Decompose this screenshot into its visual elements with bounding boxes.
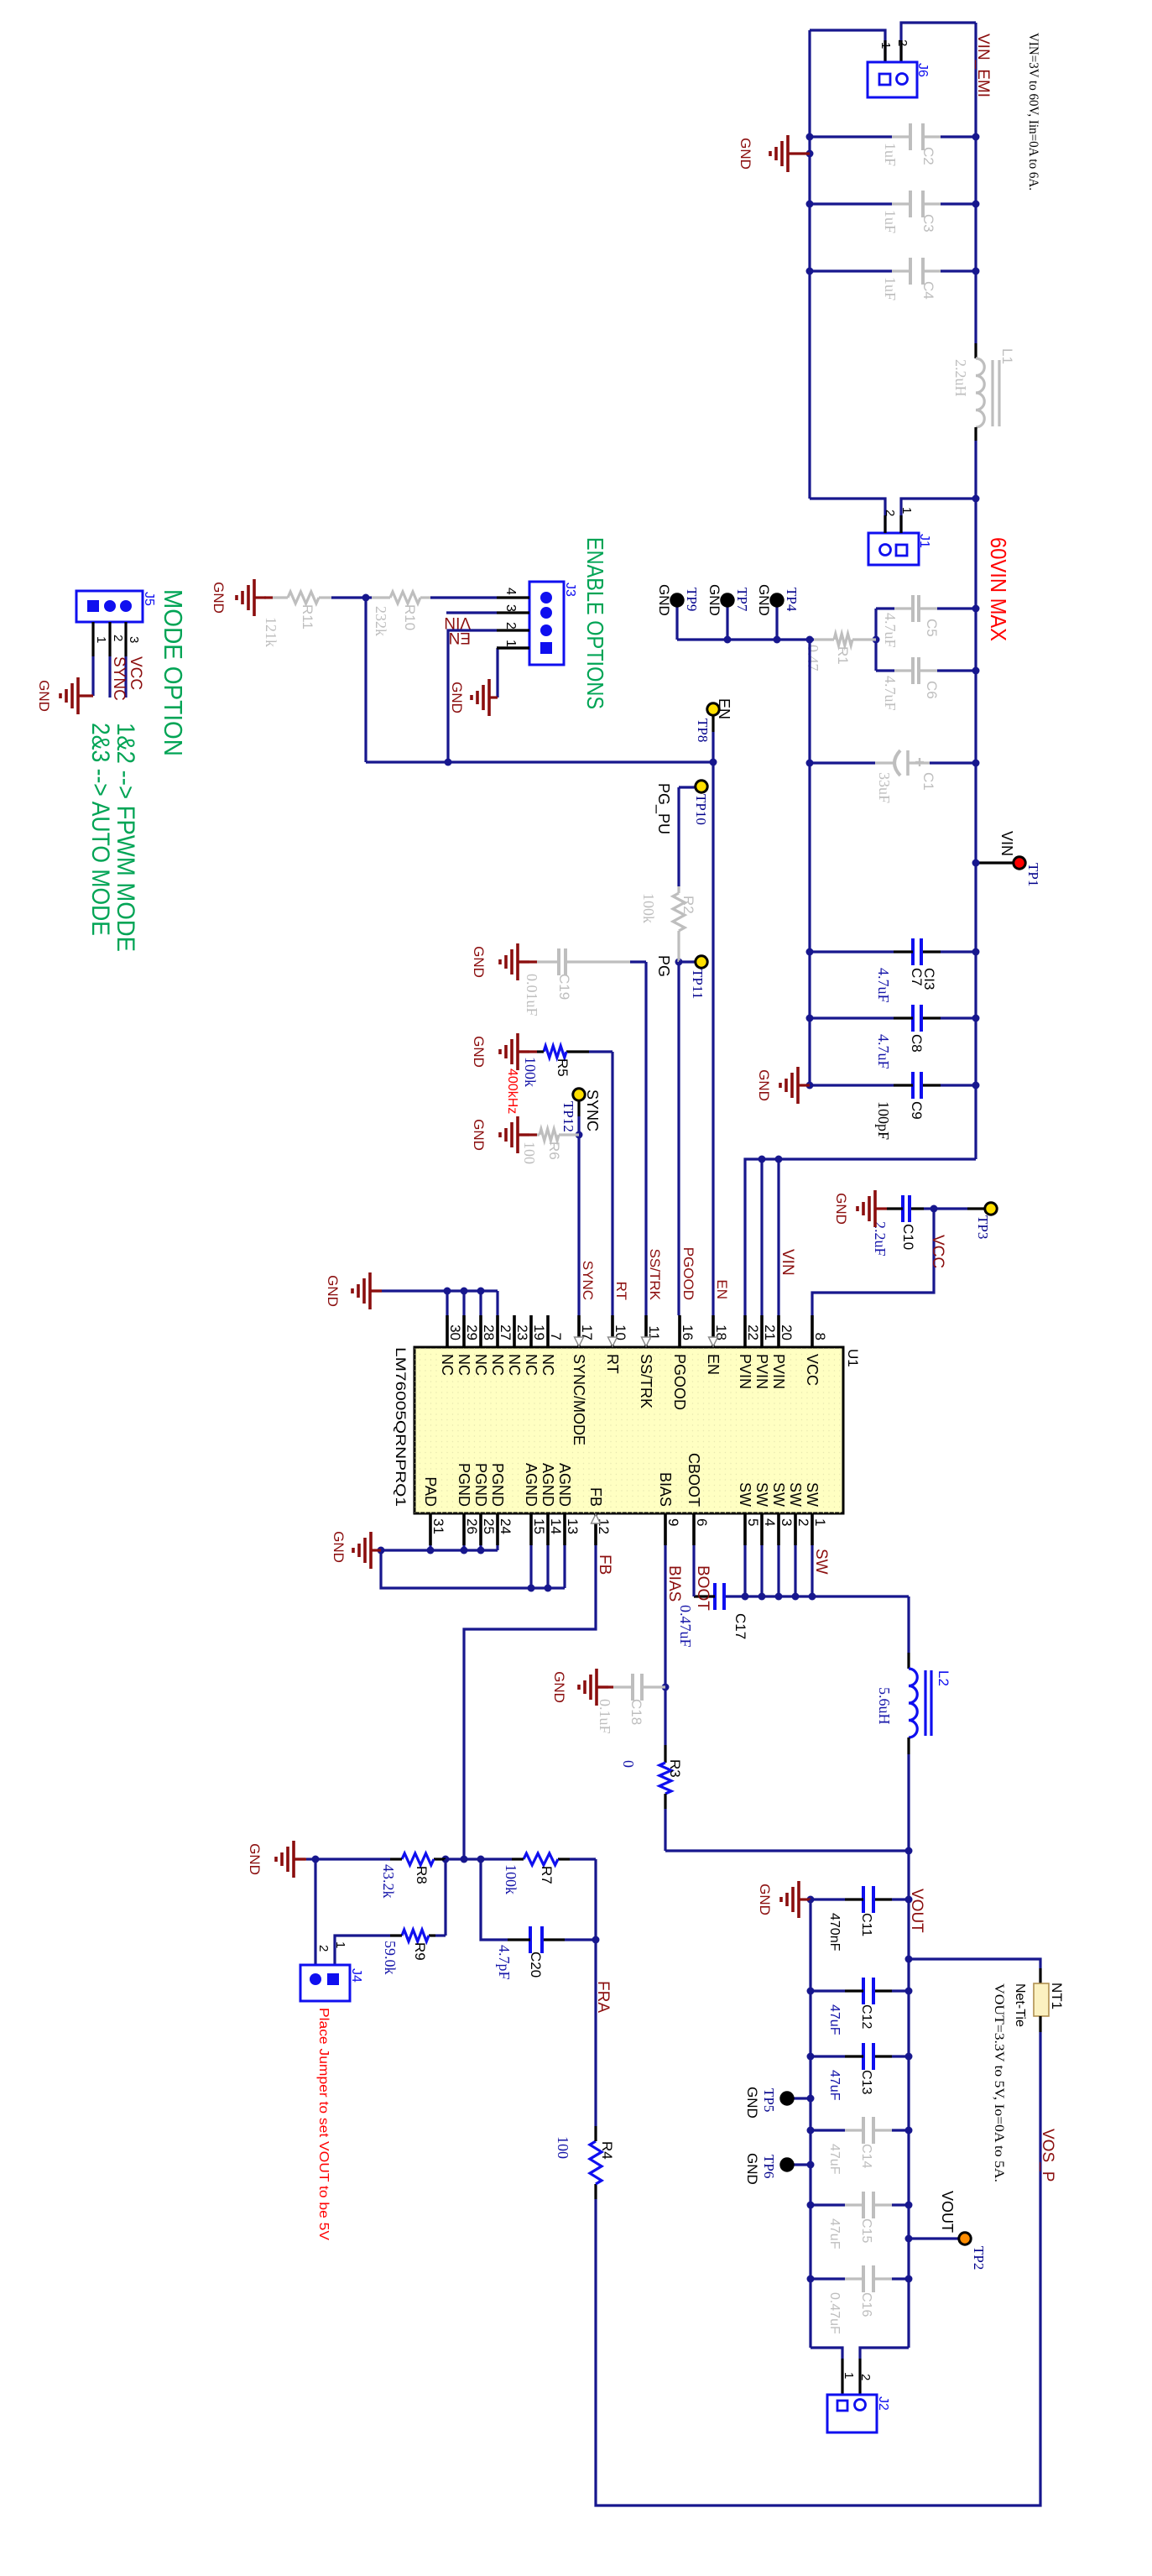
svg-text:GND: GND <box>331 1531 347 1563</box>
svg-text:1uF: 1uF <box>882 210 899 233</box>
svg-text:C7: C7 <box>909 968 925 986</box>
svg-text:C5: C5 <box>924 619 940 637</box>
capacitor C15 <box>807 2192 913 2249</box>
svg-text:100k: 100k <box>503 1864 519 1894</box>
svg-text:R6: R6 <box>546 1142 562 1160</box>
svg-text:EN: EN <box>716 698 732 719</box>
capacitor C5 <box>876 595 980 648</box>
svg-text:0.47: 0.47 <box>805 645 821 671</box>
wire VIN bus to PVIN pins <box>745 1156 976 1316</box>
label AUTO MODE option <box>86 723 114 936</box>
resistor R9 <box>335 1859 446 1975</box>
svg-text:43.2k: 43.2k <box>380 1864 397 1899</box>
note VOUT range <box>992 1983 1006 2182</box>
test point TP4 GND <box>756 584 800 644</box>
svg-text:1uF: 1uF <box>882 143 899 166</box>
test point TP5 GND <box>744 2087 815 2119</box>
svg-text:100pF: 100pF <box>875 1101 892 1140</box>
net label BOOT <box>694 1565 712 1611</box>
svg-text:1: 1 <box>503 640 518 647</box>
svg-text:C17: C17 <box>732 1613 748 1639</box>
svg-text:16: 16 <box>680 1325 696 1340</box>
svg-text:GND: GND <box>449 682 465 713</box>
ground GND at J3 pin1 <box>449 679 498 716</box>
net label VOUT <box>908 1889 925 1933</box>
svg-text:100: 100 <box>521 1142 538 1164</box>
svg-text:2: 2 <box>895 39 910 46</box>
svg-text:1: 1 <box>94 636 108 643</box>
svg-text:FB: FB <box>596 1554 613 1575</box>
svg-text:NC: NC <box>540 1354 556 1376</box>
svg-text:4: 4 <box>762 1518 778 1526</box>
svg-text:100: 100 <box>555 2136 571 2159</box>
pin number 2 of J2 <box>858 2374 873 2380</box>
svg-text:RT: RT <box>604 1354 621 1374</box>
svg-text:R8: R8 <box>414 1866 430 1884</box>
resistor R3 <box>620 1745 683 1851</box>
IC U1 LM76005QRNPRQ1 <box>393 1315 861 1545</box>
note VIN range <box>1026 33 1040 191</box>
svg-text:R2: R2 <box>680 896 696 914</box>
svg-text:RT: RT <box>613 1282 629 1300</box>
wire PGND pins rail <box>378 1545 498 1554</box>
wire J3 pin3 VIN stub <box>446 611 497 614</box>
ground GND at C19 <box>471 943 537 980</box>
svg-text:1: 1 <box>899 507 914 514</box>
test point TP2 VOUT <box>905 2191 988 2270</box>
svg-text:20: 20 <box>779 1325 795 1340</box>
wire SS/TRK net <box>644 962 647 1315</box>
svg-text:SW: SW <box>737 1482 753 1507</box>
ground GND at NC pins <box>325 1272 382 1309</box>
pin number 1 of J5 <box>93 622 108 656</box>
connector J6 <box>868 62 930 97</box>
svg-text:PGND: PGND <box>489 1463 506 1507</box>
svg-text:15: 15 <box>531 1518 547 1534</box>
wire FRA net <box>594 1859 597 1940</box>
svg-text:TP11: TP11 <box>690 969 706 999</box>
svg-text:2: 2 <box>503 622 518 630</box>
wire VOUT to NT1 <box>905 1956 1041 1984</box>
wire EN net <box>710 759 717 1316</box>
wire J5 pin2 SYNC <box>108 656 111 698</box>
svg-text:VOS_P: VOS_P <box>1039 2129 1056 2182</box>
svg-text:C8: C8 <box>909 1034 925 1053</box>
pin number 3 of J5 <box>126 622 141 656</box>
svg-text:FB: FB <box>587 1487 604 1507</box>
svg-text:C15: C15 <box>859 2218 873 2243</box>
svg-text:EN: EN <box>449 629 471 646</box>
svg-text:NC: NC <box>506 1354 523 1376</box>
svg-text:2: 2 <box>111 635 125 641</box>
svg-text:R10: R10 <box>402 604 418 630</box>
wire GND bus A <box>808 30 811 499</box>
svg-text:470nF: 470nF <box>827 1913 842 1952</box>
svg-text:J3: J3 <box>563 583 577 597</box>
svg-text:C11: C11 <box>859 1913 873 1936</box>
wire VCC from pin8 <box>812 1205 938 1316</box>
svg-text:TP10: TP10 <box>693 794 709 825</box>
svg-text:C20: C20 <box>528 1952 544 1978</box>
svg-text:3: 3 <box>127 636 141 643</box>
net label VCC <box>929 1235 946 1268</box>
svg-text:100k: 100k <box>640 893 657 923</box>
svg-text:L1: L1 <box>999 348 1015 364</box>
connector J2 <box>827 2395 890 2432</box>
svg-text:SYNC: SYNC <box>580 1261 596 1300</box>
ground GND at PGND rail <box>331 1531 381 1569</box>
svg-text:NC: NC <box>456 1354 472 1376</box>
svg-text:VCC: VCC <box>929 1235 946 1268</box>
svg-text:C2: C2 <box>920 147 936 165</box>
svg-text:232k: 232k <box>373 606 389 636</box>
capacitor C12 <box>807 1978 913 2035</box>
test point TP11 PG <box>655 955 707 999</box>
wire J6 pin1 to GND bus <box>810 30 885 62</box>
net label EN at U1 <box>714 1279 730 1299</box>
svg-text:PGND: PGND <box>472 1463 489 1507</box>
svg-text:AGND: AGND <box>556 1463 573 1507</box>
net label PGOOD at U1 <box>680 1247 696 1300</box>
svg-text:C4: C4 <box>920 281 936 300</box>
svg-text:VCC: VCC <box>127 656 144 690</box>
svg-text:1uF: 1uF <box>882 277 899 300</box>
svg-text:J6: J6 <box>915 63 930 77</box>
svg-text:C16: C16 <box>859 2292 873 2317</box>
pin number 2 of J3 <box>497 622 529 630</box>
net label FRA <box>594 1981 612 2013</box>
resistor R7 <box>446 1853 596 1894</box>
svg-text:GND: GND <box>756 1069 772 1101</box>
svg-text:ENABLE OPTIONS: ENABLE OPTIONS <box>582 537 608 709</box>
connector J1 <box>868 533 931 565</box>
wire J5 pin1 to GND <box>91 656 94 696</box>
svg-text:0.01uF: 0.01uF <box>524 974 540 1016</box>
test point TP6 GND <box>744 2153 815 2185</box>
resistor R5 <box>522 1046 612 1087</box>
label FPWM MODE option <box>112 723 139 952</box>
svg-text:14: 14 <box>548 1518 564 1534</box>
svg-text:R7: R7 <box>539 1866 555 1884</box>
svg-text:GND: GND <box>325 1275 341 1307</box>
pin number 1 of J2 <box>842 2372 856 2379</box>
capacitor C8 <box>806 1005 980 1069</box>
svg-text:J4: J4 <box>349 1968 363 1983</box>
test point TP10 PG_PU <box>654 781 709 834</box>
svg-text:TP9: TP9 <box>684 588 700 611</box>
label ENABLE OPTIONS <box>582 537 608 709</box>
svg-text:C13: C13 <box>859 2070 873 2094</box>
svg-text:AGND: AGND <box>523 1463 540 1507</box>
svg-text:C9: C9 <box>909 1101 925 1120</box>
svg-text:PVIN: PVIN <box>770 1354 787 1389</box>
svg-text:0.47uF: 0.47uF <box>827 2292 842 2334</box>
wire AGND pins rail <box>381 1545 565 1592</box>
svg-text:0.47uF: 0.47uF <box>677 1605 694 1648</box>
svg-text:J2: J2 <box>876 2396 890 2411</box>
svg-text:GND: GND <box>757 1884 773 1915</box>
svg-text:C14: C14 <box>859 2144 873 2168</box>
svg-text:GND: GND <box>756 584 772 616</box>
resistor R1 <box>805 634 876 671</box>
wire EN vertical to J3 divider <box>366 759 713 766</box>
capacitor C11 <box>807 1886 913 1952</box>
inductor L1 <box>952 343 1015 441</box>
svg-text:PGND: PGND <box>456 1463 472 1507</box>
capacitor C1 electrolytic <box>806 750 980 803</box>
svg-text:31: 31 <box>430 1518 446 1534</box>
capacitor C3 <box>806 191 980 233</box>
wire VOUT to J2 pin2 <box>860 2348 909 2395</box>
svg-text:FRA: FRA <box>594 1981 612 2013</box>
net label VIN at PVIN <box>779 1249 796 1276</box>
wire SW rail <box>724 1545 909 1601</box>
svg-text:4.7uF: 4.7uF <box>882 613 899 648</box>
svg-text:47uF: 47uF <box>827 2070 842 2101</box>
wire J3 pin4 to divider <box>430 596 497 598</box>
net label RT at U1 <box>613 1282 629 1300</box>
svg-text:25: 25 <box>481 1518 497 1534</box>
svg-text:28: 28 <box>481 1325 497 1340</box>
svg-text:60VIN MAX: 60VIN MAX <box>986 537 1011 641</box>
test point TP9 GND <box>656 584 700 640</box>
svg-text:33uF: 33uF <box>876 772 893 803</box>
svg-text:3: 3 <box>503 604 518 612</box>
svg-text:SW: SW <box>770 1482 787 1507</box>
svg-text:R4: R4 <box>599 2141 615 2160</box>
svg-text:TP1: TP1 <box>1025 863 1041 886</box>
capacitor C6 <box>876 657 980 711</box>
net label EN at J3 <box>449 629 471 646</box>
wire J3 pin1 to GND <box>497 648 529 698</box>
svg-text:121k: 121k <box>263 617 279 647</box>
svg-text:BIAS: BIAS <box>665 1565 683 1602</box>
pin number 3 of J3 <box>497 604 529 613</box>
ground GND at R5 <box>471 1033 537 1070</box>
wire BIAS to VOUT rail <box>665 1847 913 1855</box>
capacitor C9 <box>810 1072 980 1140</box>
svg-text:7: 7 <box>548 1333 564 1340</box>
svg-text:TP6: TP6 <box>761 2155 777 2178</box>
resistor R10 <box>366 592 430 636</box>
svg-text:47uF: 47uF <box>827 2144 842 2175</box>
svg-text:PG: PG <box>655 955 672 977</box>
connector J4 <box>300 1965 363 2001</box>
svg-text:NC: NC <box>472 1354 489 1376</box>
svg-text:AGND: AGND <box>540 1463 556 1507</box>
capacitor C18 <box>597 1674 665 1734</box>
svg-text:5: 5 <box>745 1518 761 1526</box>
capacitor C4 <box>806 258 980 300</box>
svg-text:BIAS: BIAS <box>657 1472 674 1507</box>
ground GND-B <box>756 1067 814 1104</box>
test point TP7 GND <box>706 584 750 644</box>
svg-text:GND: GND <box>471 1119 487 1151</box>
svg-text:C3: C3 <box>920 214 936 233</box>
svg-text:47uF: 47uF <box>827 2004 842 2035</box>
svg-text:21: 21 <box>762 1325 778 1340</box>
svg-text:J5: J5 <box>142 592 156 606</box>
svg-text:NC: NC <box>439 1354 456 1376</box>
net label VCC at J5 <box>127 656 144 690</box>
pin number 2 of J4 <box>316 1945 331 1952</box>
svg-text:VIN=3V to 60V, Iin=0A to 6A.: VIN=3V to 60V, Iin=0A to 6A. <box>1026 33 1040 191</box>
pin number 2 of J6 <box>895 39 910 46</box>
svg-text:2: 2 <box>316 1945 331 1952</box>
net label VOS_P <box>1039 2129 1056 2182</box>
svg-text:C1: C1 <box>920 772 936 791</box>
svg-text:PVIN: PVIN <box>753 1354 770 1389</box>
svg-text:GND: GND <box>471 1036 487 1068</box>
svg-text:L2: L2 <box>936 1670 951 1686</box>
net tie NT1 <box>1013 1983 1065 2027</box>
svg-text:TP2: TP2 <box>971 2246 987 2270</box>
wire J5 pin3 VCC <box>124 656 127 698</box>
wire NC pins ground rail <box>382 1288 498 1316</box>
svg-text:SW: SW <box>753 1482 770 1507</box>
svg-text:SS/TRK: SS/TRK <box>638 1354 654 1408</box>
capacitor C2 <box>806 123 980 166</box>
test point TP1 VIN <box>972 831 1042 886</box>
resistor R6 <box>521 1129 579 1164</box>
wire VIN_EMI bus (top) <box>974 23 977 1159</box>
pin number 1 of J3 <box>497 640 529 648</box>
svg-text:2: 2 <box>858 2374 873 2380</box>
capacitor C19 <box>524 948 646 1016</box>
net label FB <box>596 1554 613 1575</box>
svg-text:29: 29 <box>464 1325 480 1340</box>
svg-text:1: 1 <box>878 42 893 49</box>
wire PGOOD net <box>675 787 683 1315</box>
svg-text:0.1uF: 0.1uF <box>597 1699 613 1734</box>
svg-text:3: 3 <box>779 1518 795 1526</box>
pin number 4 of J3 <box>497 588 529 598</box>
svg-text:27: 27 <box>498 1325 513 1340</box>
label 400kHz <box>505 1069 519 1114</box>
test point TP3 VCC <box>934 1203 997 1240</box>
svg-text:VIN: VIN <box>998 831 1015 856</box>
resistor R11 <box>263 592 366 647</box>
connector J5 <box>76 591 156 622</box>
ground GND at C10 <box>833 1190 887 1227</box>
svg-text:NC: NC <box>523 1354 540 1376</box>
svg-text:6: 6 <box>694 1518 710 1526</box>
svg-text:GND: GND <box>706 584 722 616</box>
wire J4 pin2 to GND <box>314 1859 316 1965</box>
svg-text:1: 1 <box>842 2372 856 2379</box>
svg-text:NT1: NT1 <box>1049 1983 1065 2009</box>
svg-text:24: 24 <box>498 1518 513 1534</box>
pin number 1 of J4 <box>333 1941 347 1948</box>
svg-text:SW: SW <box>812 1549 830 1575</box>
svg-text:1: 1 <box>333 1941 347 1948</box>
svg-text:1&2 --> FPWM MODE: 1&2 --> FPWM MODE <box>112 723 139 952</box>
svg-text:SYNC: SYNC <box>110 656 128 701</box>
svg-text:VCC: VCC <box>804 1354 821 1386</box>
svg-text:VIN: VIN <box>444 614 471 631</box>
svg-text:SYNC/MODE: SYNC/MODE <box>571 1354 587 1445</box>
svg-text:PGOOD: PGOOD <box>671 1354 688 1410</box>
ground GND at R6 <box>471 1116 537 1153</box>
svg-text:TP12: TP12 <box>560 1101 576 1132</box>
svg-text:R3: R3 <box>667 1759 683 1778</box>
net label SW <box>812 1549 830 1575</box>
net label SYNC at J5 <box>110 656 128 701</box>
wire SYNC net <box>576 1131 583 1316</box>
pin number 1 of J1 <box>899 507 914 514</box>
svg-text:8: 8 <box>812 1333 828 1340</box>
net label 60VIN MAX <box>986 537 1011 641</box>
svg-text:VOUT=3.3V to 5V, Io=0A to 5A.: VOUT=3.3V to 5V, Io=0A to 5A. <box>992 1983 1006 2182</box>
connector J3 <box>529 582 577 665</box>
ground GND at R8 <box>247 1841 315 1878</box>
capacitor C14 <box>807 2117 913 2175</box>
svg-text:TP5: TP5 <box>761 2088 777 2112</box>
svg-text:23: 23 <box>514 1325 530 1340</box>
svg-text:9: 9 <box>665 1518 681 1526</box>
capacitor C7 <box>806 938 980 1003</box>
svg-text:2: 2 <box>795 1518 811 1526</box>
svg-text:BOOT: BOOT <box>694 1565 712 1611</box>
net label BIAS <box>665 1565 683 1602</box>
svg-text:19: 19 <box>531 1325 547 1340</box>
net label VIN_EMI <box>974 34 992 97</box>
node FB GND junction <box>312 1856 320 1863</box>
svg-text:26: 26 <box>464 1518 480 1534</box>
svg-text:TP3: TP3 <box>975 1215 991 1239</box>
pin number 2 of J5 <box>110 622 125 656</box>
svg-text:SS/TRK: SS/TRK <box>647 1249 663 1301</box>
resistor R4 <box>555 1936 615 2200</box>
svg-text:GND: GND <box>833 1193 849 1225</box>
svg-text:PG_PU: PG_PU <box>654 783 672 834</box>
ground GND at J5 <box>36 677 93 714</box>
svg-text:2&3 --> AUTO MODE: 2&3 --> AUTO MODE <box>86 723 114 936</box>
svg-text:C10: C10 <box>900 1224 916 1250</box>
pin number 1 of J6 <box>878 42 893 49</box>
svg-text:47uF: 47uF <box>827 2218 842 2249</box>
svg-text:GND: GND <box>656 584 672 616</box>
svg-text:GND: GND <box>211 582 227 614</box>
test point TP12 SYNC <box>560 1089 601 1135</box>
svg-text:TP7: TP7 <box>734 588 750 612</box>
wire GND test point rail <box>677 638 810 640</box>
ground GND at R11 <box>211 579 273 616</box>
ground GND at C18 <box>551 1669 613 1706</box>
svg-text:R11: R11 <box>300 604 315 630</box>
svg-text:C6: C6 <box>924 681 940 699</box>
wire EN divider row <box>364 598 367 762</box>
svg-text:R9: R9 <box>412 1942 428 1961</box>
wire RT net <box>611 1052 613 1315</box>
svg-text:LM76005QRNPRQ1: LM76005QRNPRQ1 <box>393 1347 409 1507</box>
capacitor C16 <box>807 2265 913 2334</box>
svg-text:GND: GND <box>247 1843 263 1875</box>
svg-text:U1: U1 <box>845 1349 861 1367</box>
svg-text:4: 4 <box>503 588 518 595</box>
svg-text:4.7uF: 4.7uF <box>882 676 899 711</box>
net label SS/TRK at U1 <box>647 1249 663 1301</box>
capacitor C13 <box>807 2043 913 2101</box>
wire GND bus B <box>808 640 811 1085</box>
svg-text:SW: SW <box>804 1482 821 1507</box>
svg-text:22: 22 <box>745 1325 761 1340</box>
svg-text:Place Jumper to set VOUT to be: Place Jumper to set VOUT to be 5V <box>316 2008 331 2240</box>
svg-text:CBOOT: CBOOT <box>685 1453 702 1507</box>
svg-text:MODE OPTION: MODE OPTION <box>159 589 188 756</box>
svg-text:PGOOD: PGOOD <box>680 1247 696 1300</box>
svg-text:VIN: VIN <box>779 1249 796 1276</box>
